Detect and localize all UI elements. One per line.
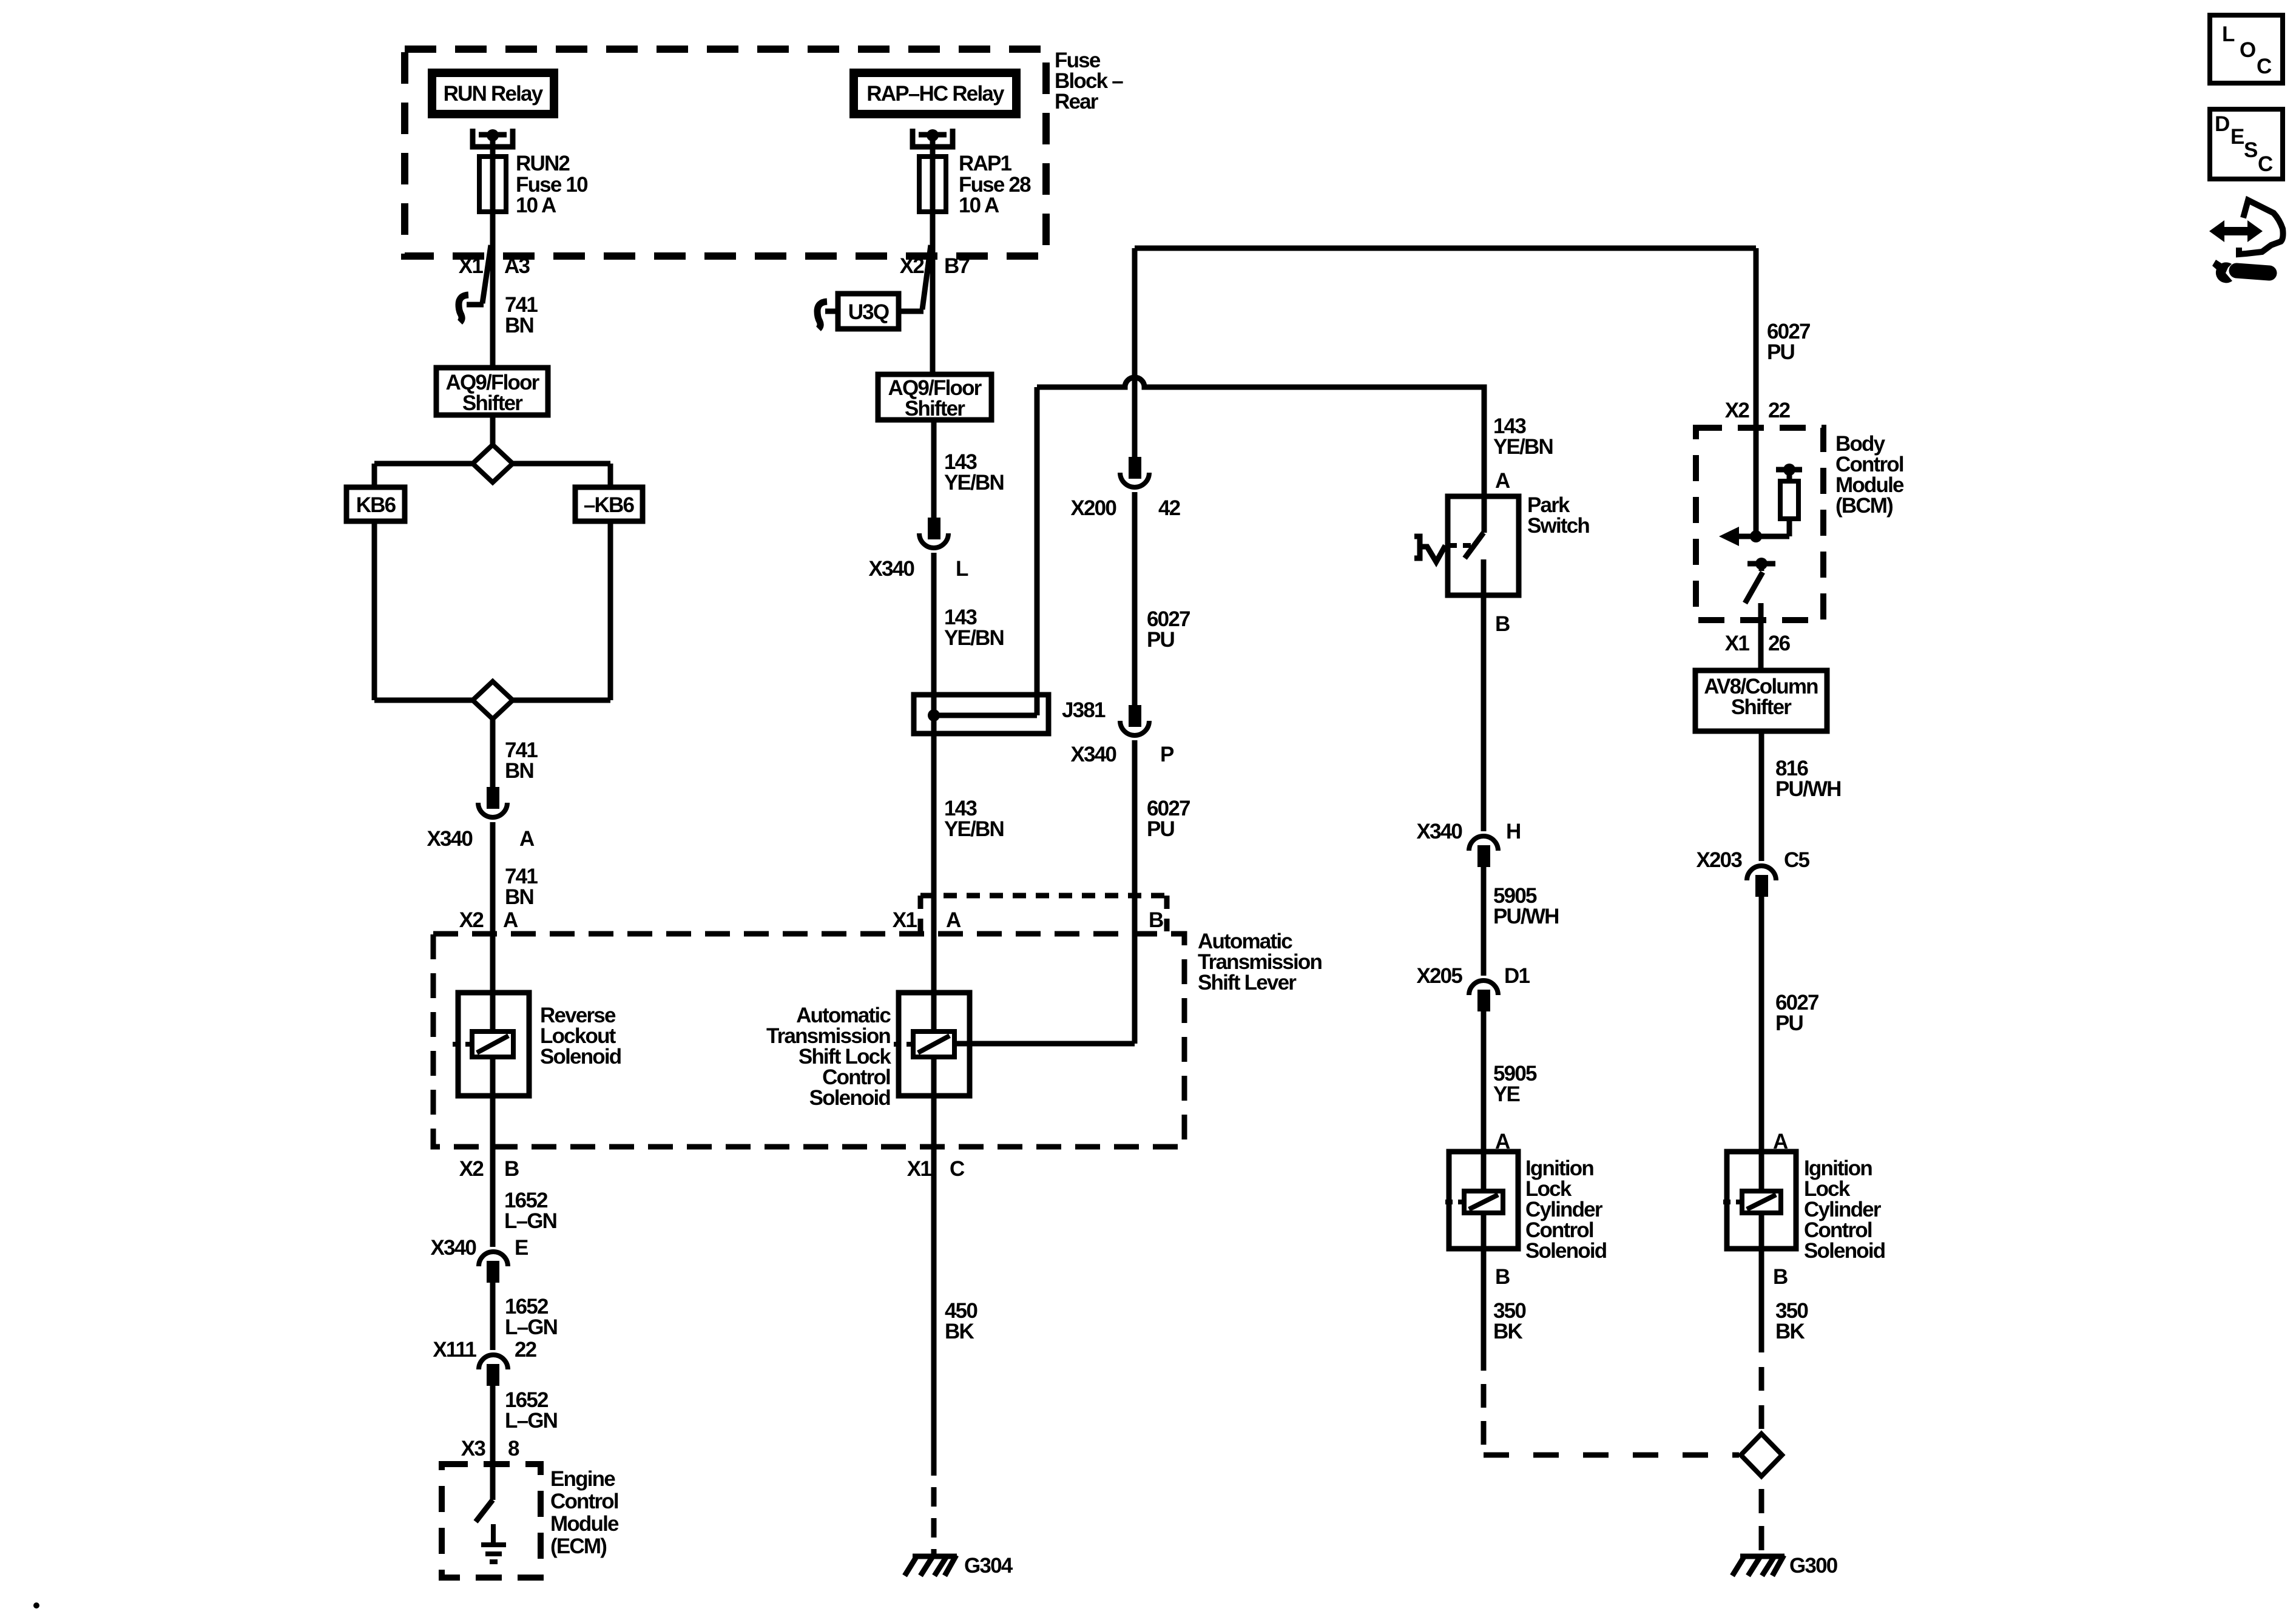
svg-text:B7: B7	[944, 254, 969, 278]
svg-text:X1: X1	[893, 908, 917, 932]
svg-text:S: S	[2244, 138, 2257, 162]
svg-text:RAP–HC Relay: RAP–HC Relay	[866, 82, 1005, 106]
svg-text:A: A	[1495, 1130, 1510, 1153]
svg-text:22: 22	[515, 1338, 537, 1362]
svg-text:B: B	[1149, 908, 1163, 932]
svg-text:–KB6: –KB6	[584, 493, 635, 517]
svg-text:PU: PU	[1767, 340, 1795, 364]
svg-text:X340: X340	[1070, 743, 1116, 766]
svg-text:Switch: Switch	[1527, 514, 1589, 538]
svg-text:B: B	[1495, 1265, 1510, 1289]
svg-text:10 A: 10 A	[516, 194, 556, 217]
svg-text:YE/BN: YE/BN	[944, 471, 1004, 495]
svg-text:Solenoid: Solenoid	[540, 1045, 621, 1068]
svg-text:B: B	[504, 1157, 519, 1181]
svg-text:Shifter: Shifter	[1731, 695, 1792, 719]
svg-text:L: L	[956, 557, 968, 581]
svg-text:X340: X340	[430, 1236, 476, 1260]
svg-text:H: H	[1506, 820, 1520, 843]
svg-text:L–GN: L–GN	[505, 1315, 557, 1339]
svg-text:U3Q: U3Q	[848, 300, 889, 324]
svg-text:42: 42	[1158, 496, 1181, 520]
svg-text:X111: X111	[433, 1338, 476, 1362]
svg-text:X2: X2	[459, 908, 484, 932]
svg-text:C: C	[2257, 55, 2272, 78]
svg-text:PU/WH: PU/WH	[1775, 777, 1841, 801]
svg-text:X205: X205	[1416, 964, 1462, 988]
svg-text:YE: YE	[1493, 1082, 1520, 1106]
svg-text:L–GN: L–GN	[504, 1209, 556, 1233]
svg-text:Engine: Engine	[550, 1467, 615, 1491]
svg-text:Solenoid: Solenoid	[809, 1086, 891, 1110]
svg-text:(ECM): (ECM)	[550, 1534, 606, 1558]
svg-text:J381: J381	[1062, 698, 1106, 722]
svg-text:X340: X340	[868, 557, 914, 581]
svg-text:RAP1: RAP1	[959, 152, 1011, 175]
svg-text:22: 22	[1768, 399, 1791, 422]
svg-text:Rear: Rear	[1055, 90, 1099, 113]
svg-text:BN: BN	[505, 314, 533, 337]
svg-text:A: A	[1773, 1130, 1788, 1153]
svg-text:Shift Lever: Shift Lever	[1198, 971, 1297, 994]
svg-text:RUN Relay: RUN Relay	[444, 82, 544, 106]
svg-text:BK: BK	[945, 1320, 974, 1343]
svg-text:X2: X2	[1725, 399, 1750, 422]
svg-text:E: E	[515, 1236, 528, 1260]
svg-text:O: O	[2240, 38, 2255, 62]
svg-text:X200: X200	[1070, 496, 1116, 520]
svg-text:A: A	[503, 908, 518, 932]
svg-text:X340: X340	[427, 827, 473, 851]
svg-text:26: 26	[1768, 632, 1791, 655]
svg-text:P: P	[1160, 743, 1174, 766]
svg-text:PU/WH: PU/WH	[1493, 905, 1559, 928]
svg-text:E: E	[2230, 125, 2244, 149]
svg-text:X2: X2	[900, 254, 925, 278]
svg-text:C: C	[2258, 152, 2273, 176]
svg-text:X203: X203	[1696, 848, 1742, 872]
svg-text:PU: PU	[1147, 817, 1175, 841]
svg-text:X1: X1	[1725, 632, 1750, 655]
svg-text:C: C	[950, 1157, 965, 1181]
svg-text:Solenoid: Solenoid	[1804, 1239, 1885, 1263]
svg-text:D: D	[2215, 112, 2229, 136]
svg-text:10 A: 10 A	[959, 194, 999, 217]
svg-text:C5: C5	[1784, 848, 1809, 872]
svg-text:X1: X1	[907, 1157, 932, 1181]
svg-text:A: A	[946, 908, 961, 932]
svg-text:BN: BN	[505, 885, 533, 909]
svg-text:A3: A3	[504, 254, 530, 278]
svg-text:L: L	[2222, 22, 2235, 46]
svg-text:L–GN: L–GN	[505, 1409, 557, 1433]
svg-text:YE/BN: YE/BN	[944, 626, 1004, 650]
svg-text:Module: Module	[550, 1512, 619, 1536]
svg-text:B: B	[1495, 612, 1510, 636]
svg-text:G300: G300	[1789, 1554, 1838, 1578]
svg-text:B: B	[1773, 1265, 1788, 1289]
svg-text:X1: X1	[459, 254, 484, 278]
svg-text:KB6: KB6	[356, 493, 396, 517]
svg-text:RUN2: RUN2	[516, 152, 570, 175]
svg-text:A: A	[519, 827, 535, 851]
svg-text:X2: X2	[459, 1157, 484, 1181]
svg-text:X3: X3	[461, 1437, 486, 1460]
svg-text:8: 8	[508, 1437, 519, 1460]
svg-text:X340: X340	[1416, 820, 1462, 843]
svg-text:G304: G304	[964, 1554, 1013, 1578]
svg-text:PU: PU	[1147, 628, 1175, 652]
svg-text:A: A	[1495, 469, 1510, 493]
svg-text:Shifter: Shifter	[462, 391, 523, 415]
svg-text:YE/BN: YE/BN	[1493, 435, 1553, 459]
svg-text:BK: BK	[1493, 1320, 1522, 1343]
svg-text:YE/BN: YE/BN	[944, 817, 1004, 841]
svg-text:Solenoid: Solenoid	[1525, 1239, 1607, 1263]
svg-text:BN: BN	[505, 759, 533, 783]
svg-text:Shifter: Shifter	[905, 397, 965, 420]
svg-text:D1: D1	[1504, 964, 1530, 988]
svg-text:Control: Control	[550, 1490, 618, 1513]
svg-text:(BCM): (BCM)	[1835, 494, 1893, 518]
svg-text:BK: BK	[1775, 1320, 1805, 1343]
svg-text:PU: PU	[1775, 1011, 1803, 1035]
